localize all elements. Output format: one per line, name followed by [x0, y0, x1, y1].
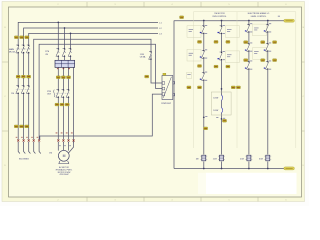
- label pill OLR out 2: [60, 103, 64, 106]
- wire PE bus: [39, 44, 155, 139]
- label pill rung3 w2r: [261, 59, 265, 62]
- label pill rung2 w3: [223, 119, 227, 122]
- wire L3 bus: [29, 33, 158, 45]
- breaker 1TM text: [45, 51, 49, 56]
- wire L3 drop to 1TM: [70, 33, 72, 48]
- overload link: [56, 92, 70, 94]
- motor pin labels U V W: [59, 144, 71, 147]
- svg-text:RUN CONTROL: RUN CONTROL: [213, 16, 227, 18]
- svg-text:OLR: OLR: [47, 93, 52, 95]
- contact 3PB1: [247, 24, 250, 32]
- wire 1TM phase 2 lower: [63, 57, 64, 140]
- wire rung 3: [248, 21, 250, 169]
- wire L1 bus: [18, 22, 158, 45]
- wire PE return run: [40, 94, 162, 140]
- terminal XT1-1: [17, 139, 19, 142]
- bus end labels L1 L2 L3: [159, 22, 162, 35]
- wire motor lead W: [68, 142, 70, 151]
- label pill rung1 w1: [198, 41, 202, 44]
- coil 2CR: [246, 155, 253, 161]
- breaker 1CM CB pole L: [149, 51, 152, 59]
- coil 3CR: [264, 155, 271, 161]
- svg-text:MCCB: MCCB: [9, 52, 16, 54]
- device box rung3 b: [253, 48, 267, 60]
- overload 1TM OLR pole 1: [56, 89, 59, 97]
- wire outgoing stub 4: [34, 142, 36, 154]
- svg-text:1CR: 1CR: [213, 159, 218, 161]
- svg-text:1LSW: 1LSW: [213, 97, 218, 99]
- device box 1M aux b: [187, 49, 201, 61]
- ladder header text group 2: [248, 12, 270, 18]
- wire outgoing stub 1: [18, 142, 20, 154]
- frame margin tick labels: [4, 4, 304, 201]
- label pill rung1 w4: [204, 127, 208, 130]
- contactor 1M pole 3: [26, 85, 29, 93]
- label pill lower feeder 3: [25, 125, 29, 128]
- svg-text:M: M: [63, 154, 66, 158]
- label pill rung3 w1r: [261, 41, 265, 44]
- svg-text:CB 6A: CB 6A: [140, 56, 146, 59]
- label pill rung1 feed: [187, 86, 191, 89]
- label pill rail right wire number: [284, 19, 295, 22]
- wire bottom rail: [174, 168, 284, 170]
- svg-text:415V 50HZ: 415V 50HZ: [59, 174, 69, 176]
- svg-text:2CR: 2CR: [240, 159, 245, 161]
- wire control L to transformer: [151, 56, 162, 83]
- contact 1M aux: [201, 72, 204, 80]
- device box rung3 a: [253, 24, 267, 36]
- frame ticks: [2, 2, 304, 201]
- terminal XT2-W: [67, 139, 69, 142]
- label pill rung4 w2: [273, 59, 277, 62]
- label pill rung2 box top b: [236, 86, 240, 89]
- ladder header text group 1: [213, 13, 227, 18]
- motor 1M: [58, 150, 69, 163]
- label pill lower feeder 2: [20, 125, 24, 128]
- wire rung 1: [203, 21, 205, 169]
- power supply mini label: [163, 73, 166, 75]
- label pill rung3 w2l: [244, 59, 248, 62]
- drawing frame: [9, 7, 302, 197]
- device box rung2 b: [225, 51, 239, 63]
- motor nameplate text: [56, 166, 73, 176]
- label pill L1 incomer: [14, 36, 18, 39]
- label pill 1TM out 2: [61, 76, 65, 79]
- label pill rung3 w1l: [244, 41, 248, 44]
- coil 1CR: [218, 155, 225, 161]
- terminal XT1-3: [28, 139, 30, 142]
- ladder rung wires: [204, 21, 268, 169]
- label pill rung2 box top a: [231, 86, 235, 89]
- contact 4PB1: [265, 24, 268, 32]
- wire outgoing stub 5: [39, 142, 41, 154]
- breaker Q1 main CB pole 1: [16, 45, 19, 53]
- device box rung2 a: [225, 26, 239, 38]
- breaker 1TM CB pole 1: [56, 48, 59, 56]
- label pill L2 incomer: [20, 36, 24, 39]
- label pill rung1 w2: [198, 65, 202, 68]
- wire 1TM phase 3 lower: [69, 57, 71, 140]
- contact 3PB2: [247, 43, 250, 51]
- terminal XT2-PE: [73, 139, 75, 142]
- label pill rung2 w1b: [226, 41, 230, 44]
- breaker Q1 text: [9, 48, 16, 54]
- wire main feeder phase 2: [23, 53, 25, 140]
- wire outgoing stub 2: [24, 142, 26, 154]
- svg-text:3CR: 3CR: [259, 159, 264, 161]
- breaker Q1 main CB pole 2: [21, 45, 24, 53]
- terminal XT1-2: [23, 139, 25, 142]
- label pill 1TM out 3: [67, 76, 71, 79]
- junction dots on bus: [57, 22, 59, 24]
- breaker Q1 link: [16, 48, 31, 50]
- terminal block 1TM aux box: [55, 60, 75, 69]
- terminal wire number marks: [16, 133, 73, 138]
- overload brace: [54, 90, 55, 98]
- label pill rung1 w3: [198, 86, 202, 89]
- svg-text:ELECTRODE HI AND LO: ELECTRODE HI AND LO: [248, 12, 270, 15]
- wire main feeder phase 1: [17, 53, 19, 140]
- contact 4PB2: [265, 43, 268, 51]
- svg-text:1LSW: 1LSW: [213, 110, 218, 112]
- contact 2PB2: [219, 52, 222, 60]
- white title-block area bottom right: [206, 173, 297, 194]
- label pill feeder 1: [16, 75, 20, 78]
- wire PE to motor frame: [69, 67, 74, 152]
- contact 1PB1: [201, 26, 204, 34]
- contact 4PB3: [265, 61, 268, 69]
- label pill 24V rail: [180, 16, 184, 19]
- contact pin number marks: [205, 23, 271, 118]
- contact 3PB3: [247, 61, 250, 69]
- label pill bottom rail wire number: [284, 167, 295, 170]
- svg-text:INCOMING: INCOMING: [19, 159, 29, 161]
- overload 1TM OLR pole 3: [66, 89, 69, 97]
- contactor 1M pole 1: [16, 85, 19, 93]
- label pill L3 incomer: [25, 36, 29, 39]
- breaker 1CM text: [140, 54, 146, 59]
- wire L2 drop to 1TM: [64, 28, 66, 49]
- label pill feeder 2: [21, 75, 25, 78]
- rail junction dots: [203, 20, 205, 22]
- wire control N to transformer: [156, 88, 163, 90]
- overload text: [47, 91, 52, 96]
- svg-text:1M: 1M: [49, 153, 52, 155]
- contactor 1M pole 2: [21, 85, 24, 93]
- wire rung 2: [221, 21, 223, 169]
- wire rung 4: [267, 21, 269, 169]
- selector switch box 1LS: [211, 92, 231, 115]
- label pill rung2 w1a: [214, 41, 218, 44]
- label pill lower feeder 1: [14, 125, 18, 128]
- contact actuator marks: [200, 32, 202, 33]
- label pill OLR out 3: [65, 103, 69, 106]
- breaker 1TM CB pole 2: [62, 48, 65, 56]
- device box 1M aux a: [187, 26, 201, 38]
- svg-text:MAIN: MAIN: [9, 48, 15, 51]
- terminal XT2-U: [57, 139, 59, 142]
- terminal XT2-V: [62, 139, 64, 142]
- svg-text:1M: 1M: [196, 159, 199, 161]
- device box inner texts: [187, 29, 231, 75]
- label pill rung2 w2a: [214, 65, 218, 68]
- svg-text:1PWR SUP: 1PWR SUP: [161, 103, 172, 105]
- wire main feeder phase 3: [28, 53, 30, 140]
- wire outgoing stub 3: [29, 142, 31, 154]
- contact 2PB1: [219, 26, 222, 34]
- label pill rung2 w2b: [226, 65, 230, 68]
- device box 1M aux c: [187, 72, 192, 78]
- wire top rail: [174, 20, 285, 22]
- label pill feeder 3: [27, 75, 31, 78]
- label pill control feed: [145, 75, 149, 78]
- terminal XT1-5: [38, 139, 40, 142]
- wire N bus: [34, 39, 151, 139]
- wire number dots rung1 rung2: [203, 116, 205, 118]
- coil 1M: [200, 155, 207, 161]
- svg-text:1M: 1M: [11, 93, 14, 95]
- junction dot rung2 above box: [221, 88, 223, 90]
- ladder group separators: [194, 12, 296, 148]
- terminal XT1-4: [33, 139, 35, 142]
- breaker Q1 main CB pole 3: [26, 45, 29, 53]
- contact 1PB2: [201, 50, 204, 58]
- breaker 1TM CB pole 3: [68, 48, 71, 56]
- wire L2 bus: [24, 28, 158, 45]
- label pill 1TM out 1: [56, 76, 60, 79]
- wire motor lead V: [62, 142, 64, 150]
- contactor 1M link: [16, 88, 31, 90]
- wire L1 drop to 1TM: [57, 22, 59, 48]
- label pill rung4 w1: [273, 41, 277, 44]
- overload 1TM OLR pole 2: [61, 89, 64, 97]
- wire control bus vertical: [173, 21, 175, 169]
- device box rung3 texts: [254, 28, 259, 54]
- power supply 1PWR: [162, 76, 175, 100]
- label pill OLR out 1: [55, 103, 59, 106]
- svg-text:LEVEL CONTROL: LEVEL CONTROL: [251, 16, 267, 18]
- wire motor lead U: [57, 142, 59, 151]
- wire 1TM phase 1 lower: [57, 57, 59, 140]
